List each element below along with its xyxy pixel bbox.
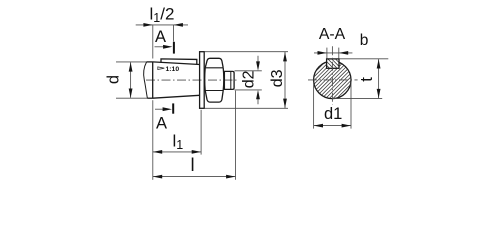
svg-text:d1: d1 (324, 105, 342, 123)
svg-text:b: b (360, 32, 369, 49)
svg-text:1:10: 1:10 (166, 66, 180, 73)
svg-text:A: A (156, 115, 167, 133)
svg-text:l: l (191, 154, 195, 175)
svg-text:d2: d2 (240, 70, 257, 88)
svg-text:l1/2: l1/2 (150, 5, 175, 26)
svg-text:A: A (155, 28, 166, 46)
svg-text:t: t (358, 77, 376, 82)
svg-text:A-A: A-A (319, 26, 346, 43)
svg-text:d3: d3 (269, 69, 286, 87)
svg-text:d: d (104, 75, 122, 84)
